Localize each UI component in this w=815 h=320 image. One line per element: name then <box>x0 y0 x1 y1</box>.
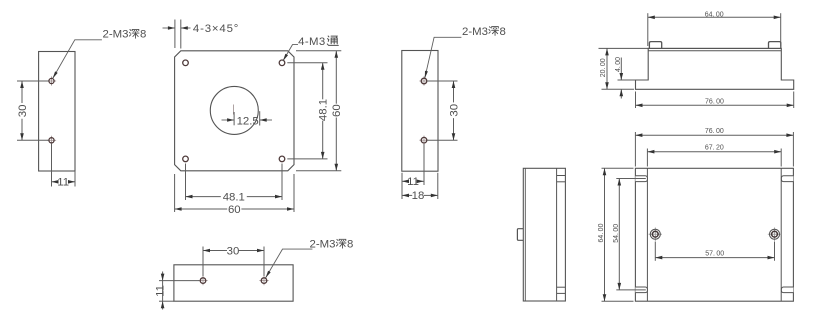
view3 right side-plate outline <box>402 51 438 172</box>
view5 dim 64.00 line <box>648 16 781 18</box>
svg-text:11: 11 <box>154 285 166 297</box>
svg-text:2-M3: 2-M3 <box>103 29 129 41</box>
view6 dim 67.20 extension lines <box>646 149 648 167</box>
view2 leader 4-M3 through <box>283 45 298 61</box>
view4 hole left 2-M3 <box>198 280 207 282</box>
view5 tab left <box>649 42 661 49</box>
view2 front plate outline chamfered <box>175 51 294 171</box>
view3 leader 2-M3deep8 <box>425 37 462 78</box>
view5 top surface line <box>599 47 782 49</box>
svg-text:30: 30 <box>17 105 29 118</box>
view6 dim 57.00 extension lines <box>654 242 656 261</box>
view6 dim 64.00 line <box>604 168 606 301</box>
view1 hole bottom 2-M3 <box>47 139 56 141</box>
view6 inner wall line right <box>780 168 782 301</box>
svg-text:48.1: 48.1 <box>223 191 245 203</box>
view3 hole bottom 2-M3 <box>419 139 428 141</box>
view4 leader 2-M3deep8 <box>266 249 313 278</box>
view4 dim 30 extension lines <box>202 247 204 277</box>
svg-text:18: 18 <box>412 190 425 202</box>
svg-text:76. 00: 76. 00 <box>705 128 724 135</box>
view5 dim 64.00 extension lines <box>647 13 649 46</box>
svg-text:8: 8 <box>140 29 146 41</box>
view6 notch left-bottom <box>635 287 647 293</box>
view7 side tab <box>517 229 523 241</box>
view2 right dim 48.1 line <box>322 63 324 100</box>
view6 inner wall line left <box>646 168 648 301</box>
view4 bottom plate outline <box>174 265 293 301</box>
view2 center bore circle <box>210 86 258 134</box>
view5 dim 4.00 extension line <box>618 79 636 81</box>
svg-text:60: 60 <box>228 204 241 216</box>
view2 right dim 60 extension lines <box>296 50 341 52</box>
svg-text:12.5: 12.5 <box>237 115 259 127</box>
view2 bottom dim 60 extension lines <box>174 174 176 212</box>
view6 screw left <box>649 233 662 235</box>
view2 dim 12.5 right arrow <box>260 119 272 121</box>
view6 dim 76.00 extension lines <box>634 132 636 167</box>
view7 flange inner line <box>556 168 558 301</box>
svg-text:57. 00: 57. 00 <box>705 251 724 258</box>
view6 screw right <box>768 233 781 235</box>
svg-text:4-3×45°: 4-3×45° <box>193 23 239 35</box>
view3 dim 11 extension line <box>423 144 425 185</box>
view6 notch right-top <box>781 176 793 182</box>
view1 dim 11 line <box>52 181 58 183</box>
view7 notch edge bottom-1 <box>557 286 566 288</box>
svg-text:30: 30 <box>448 104 460 117</box>
svg-text:8: 8 <box>500 26 506 38</box>
view2 bottom dim 48.1 extension lines <box>185 164 187 201</box>
view3 hole top 2-M3 <box>419 80 428 82</box>
view4 dim 11 extension lines <box>159 280 199 282</box>
view2 dim 12.5 tick left <box>233 112 235 125</box>
view1 left side-plate outline <box>39 52 75 172</box>
view2 hole bottom-right 4-M3 <box>279 156 285 162</box>
svg-text:67. 20: 67. 20 <box>705 144 724 151</box>
svg-text:11: 11 <box>57 177 69 189</box>
view7 notch edge top-1 <box>557 175 566 177</box>
view7 notch edge bottom-2 <box>557 292 566 294</box>
svg-text:20. 00: 20. 00 <box>600 58 607 77</box>
view5 dim 20.00 extension line bottom <box>602 88 635 90</box>
view2 bottom dim 48.1 line <box>186 196 221 198</box>
view1 leader 2-M3deep8 <box>53 40 102 79</box>
view1 dim 30 line <box>21 81 23 103</box>
view5 top plate underside line <box>648 50 781 52</box>
view1 dim 11 extension lines <box>51 144 53 187</box>
view6 dim 64.00 extension lines <box>602 167 634 169</box>
view3 dim 18 extension lines <box>401 173 403 199</box>
view7 left face inner line <box>524 168 526 301</box>
view2 dim 12.5 tick right <box>259 111 261 125</box>
view6 top-view outer outline <box>635 168 793 301</box>
view5 dim 4.00 line lower <box>620 89 622 98</box>
view3 dim 30 line <box>453 81 455 102</box>
view2 right dim 60 line <box>335 51 337 104</box>
view5 tab right <box>769 42 781 49</box>
view3 dim 18 line <box>402 194 412 196</box>
view2 hole top-left 4-M3 <box>183 60 189 66</box>
svg-text:30: 30 <box>227 245 240 257</box>
view4 dim 30 line <box>203 250 227 252</box>
view6 dim 54.00 extension lines <box>616 178 646 180</box>
view4 hole right 2-M3 <box>259 280 268 282</box>
view7 side-view outline <box>523 168 565 301</box>
view6 dim 57.00 line <box>655 257 774 259</box>
view6 dim 54.00 line <box>618 179 620 290</box>
view6 dim 76.00 line <box>635 134 793 136</box>
svg-text:60: 60 <box>331 104 343 117</box>
svg-text:2-M3: 2-M3 <box>310 239 336 251</box>
svg-text:64. 00: 64. 00 <box>705 12 724 19</box>
view7 notch edge top-2 <box>557 181 566 183</box>
view2 chamfer dim arrows <box>163 27 175 29</box>
view6 notch right-bottom <box>781 287 793 293</box>
view2 hole bottom-left 4-M3 <box>183 156 189 162</box>
svg-text:76. 00: 76. 00 <box>705 99 724 106</box>
view1 dim 30 extension lines <box>17 80 49 82</box>
view4 dim 11 line <box>162 272 164 310</box>
svg-text:2-M3: 2-M3 <box>462 26 488 38</box>
svg-text:48.1: 48.1 <box>318 99 330 121</box>
view5 elevation body outline <box>636 48 794 89</box>
view2 dim 12.5 left arrow <box>222 119 234 121</box>
view5 dim 76.00 extension lines <box>635 92 637 109</box>
svg-text:4. 00: 4. 00 <box>615 57 622 72</box>
svg-text:8: 8 <box>347 239 353 251</box>
view3 dim 11 line <box>402 180 407 182</box>
view2 center mark <box>232 105 234 115</box>
view6 notch left-top <box>635 176 647 182</box>
svg-text:11: 11 <box>407 176 419 188</box>
view6 dim 67.20 line <box>647 151 781 153</box>
svg-text:54. 00: 54. 00 <box>613 224 620 243</box>
view2 bottom dim 60 line <box>175 208 228 210</box>
view5 dim 4.00 line upper <box>620 58 622 81</box>
svg-text:4-M3: 4-M3 <box>298 36 326 48</box>
view3 dim 30 extension lines <box>427 80 457 82</box>
view2 right dim 48.1 extension lines <box>287 62 327 64</box>
svg-text:64. 00: 64. 00 <box>598 223 605 242</box>
view2 hole top-right 4-M3 <box>279 60 285 66</box>
view5 dim 76.00 line <box>636 104 794 106</box>
view5 dim 20.00 line <box>606 48 608 89</box>
view2 chamfer dim extension lines <box>174 20 176 49</box>
view1 hole top 2-M3 <box>47 80 56 82</box>
